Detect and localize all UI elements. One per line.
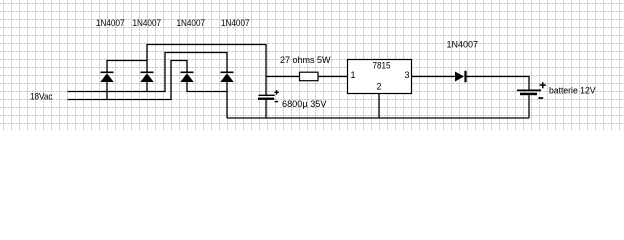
wire resistor left (+ node to R1) bbox=[266, 76, 300, 78]
battery minus sign bbox=[538, 97, 543, 99]
capacitor minus sign bbox=[275, 101, 279, 102]
battery plus sign bbox=[540, 82, 546, 88]
svg-text:1N4007: 1N4007 bbox=[96, 18, 125, 28]
svg-text:7815: 7815 bbox=[373, 61, 391, 71]
svg-text:1N4007: 1N4007 bbox=[221, 18, 250, 28]
svg-text:1N4007: 1N4007 bbox=[177, 18, 206, 28]
regulator U1 7815 box bbox=[348, 60, 412, 94]
wire D2 cathode to + node (top wire, down to capacitor) bbox=[147, 45, 266, 96]
wire battery bottom lead bbox=[528, 95, 530, 118]
svg-text:3: 3 bbox=[405, 70, 410, 80]
wire 7815 pin3 to diode D5 bbox=[412, 76, 456, 78]
svg-text:1N4007: 1N4007 bbox=[447, 40, 479, 50]
svg-text:27 ohms 5W: 27 ohms 5W bbox=[280, 55, 331, 65]
wire AC lower line (18Vac line B to D3 cathode staircase) bbox=[68, 61, 188, 100]
wire resistor right (R1 to 7815 pin1) bbox=[318, 76, 348, 78]
svg-text:1: 1 bbox=[351, 70, 356, 80]
svg-text:1N4007: 1N4007 bbox=[133, 18, 162, 28]
diode D1 bbox=[100, 72, 113, 83]
wire AC upper line (18Vac line A to D4 cathode staircase) bbox=[68, 53, 228, 92]
wire D3 anode to D4 anode bbox=[187, 82, 227, 92]
capacitor C1 plates bbox=[258, 95, 275, 100]
battery B1 plates bbox=[517, 90, 541, 96]
diode D4 bbox=[220, 72, 233, 83]
svg-text:2: 2 bbox=[377, 82, 382, 92]
wire D1 cathode to D2 cathode bbox=[107, 61, 147, 72]
diode D5 bbox=[455, 71, 467, 82]
svg-text:18Vac: 18Vac bbox=[30, 92, 53, 102]
grid background bbox=[0, 0, 624, 130]
capacitor plus sign bbox=[274, 90, 278, 94]
wire 7815 pin2 to rail bbox=[378, 94, 380, 119]
wire D1 anode to AC lower bbox=[106, 82, 108, 100]
wire D4 anode to ground rail bbox=[226, 82, 228, 118]
wire capacitor bottom lead bbox=[265, 100, 267, 118]
wire bottom rail bbox=[227, 117, 529, 119]
diode D3 bbox=[180, 72, 193, 83]
svg-text:6800µ 35V: 6800µ 35V bbox=[282, 99, 327, 109]
svg-text:batterie 12V: batterie 12V bbox=[549, 86, 596, 96]
wire D5 cathode to battery bbox=[466, 77, 529, 90]
wire D2 anode to AC upper bbox=[146, 82, 148, 92]
resistor R1 box bbox=[300, 72, 319, 81]
diode D2 bbox=[140, 72, 153, 83]
